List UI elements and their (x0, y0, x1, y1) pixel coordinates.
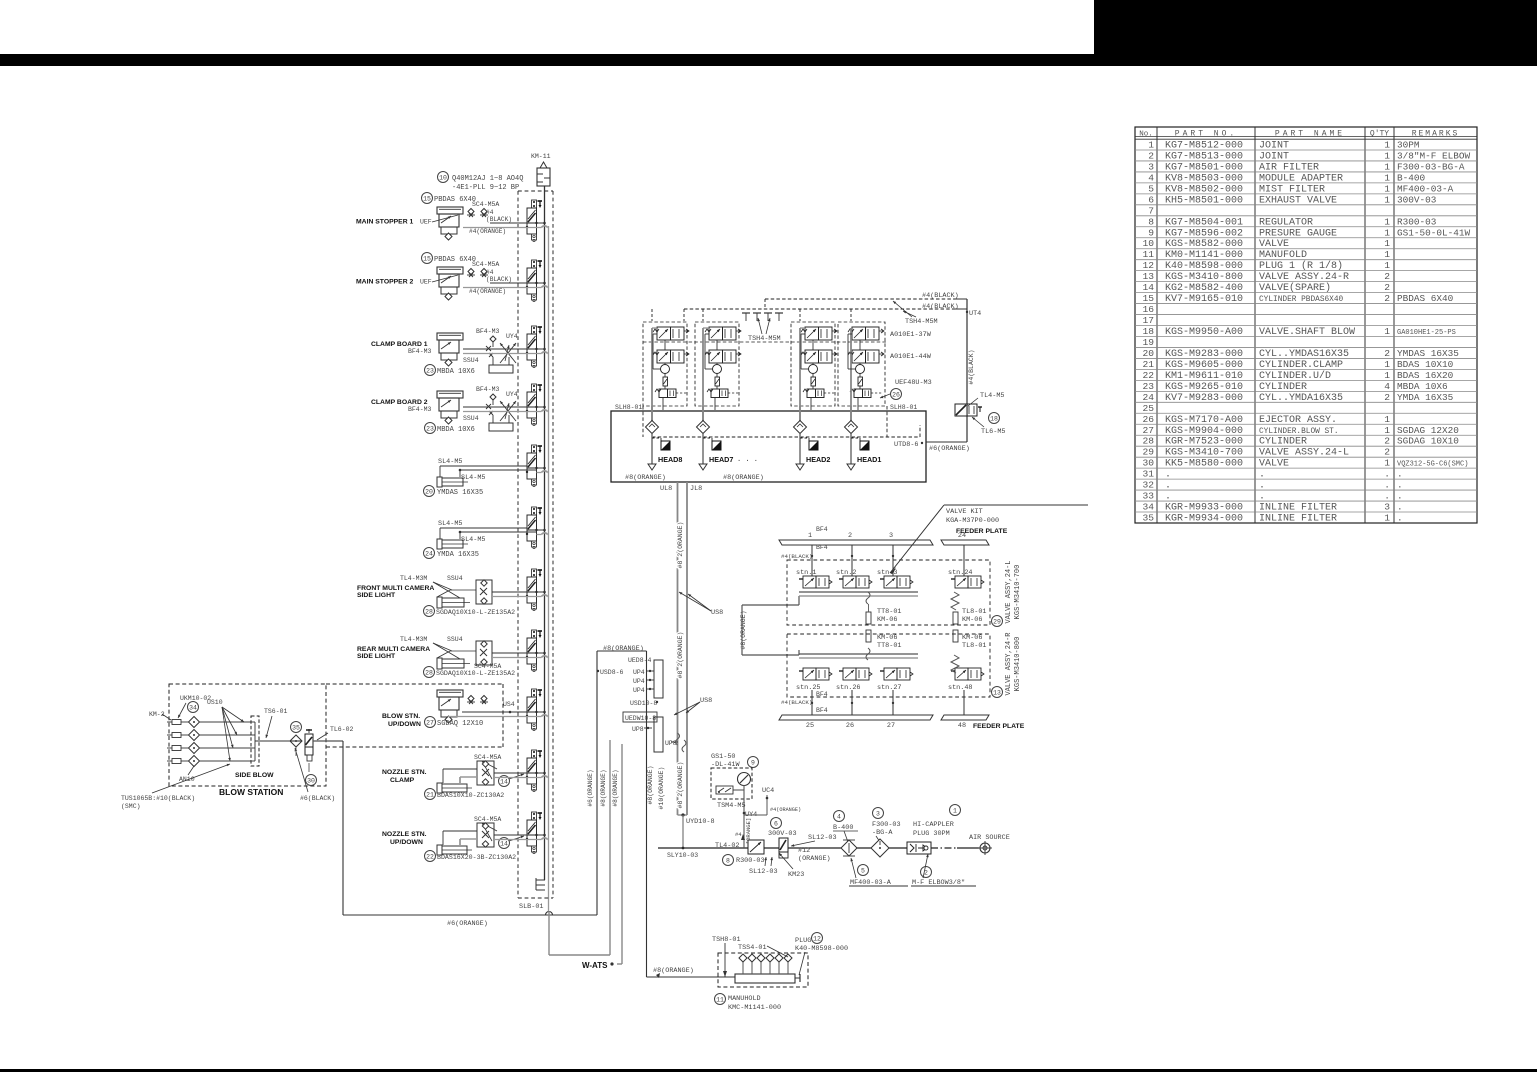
svg-text:TT8-01: TT8-01 (877, 608, 901, 616)
label circled 14 spare valve station 10 (499, 774, 525, 787)
node UP8 left (632, 726, 652, 733)
ejector head 2 (713, 365, 722, 374)
label BF4-M3 / UY4 station 3 (408, 328, 518, 364)
cylinder station 11 (437, 845, 472, 855)
svg-text:UP/DOWN: UP/DOWN (388, 721, 421, 728)
label circled 27 SGDAQ 12X10 station 9 (425, 717, 484, 729)
svg-text:22: 22 (426, 853, 434, 860)
svg-text:#4(BLACK): #4(BLACK) (922, 292, 959, 300)
svg-text:NOZZLE STN.: NOZZLE STN. (382, 831, 427, 838)
svg-text:KM-11: KM-11 (531, 153, 551, 160)
svg-text:HEAD1: HEAD1 (857, 455, 881, 464)
valve UEF48U-M3 head 2 (707, 389, 739, 398)
valve A010E1-44W head 2 (705, 350, 741, 363)
wire station 4 to valve (463, 407, 537, 412)
wire output bus valve assy VALVE ASSY,24-R (799, 654, 918, 658)
wire #6(ORANGE) to heads box (926, 442, 970, 453)
svg-text:US4: US4 (503, 701, 515, 708)
wire #6(ORANGE) bottom run (343, 912, 597, 928)
label MF400-03-A circled 5 (849, 858, 908, 887)
svg-text:SGDAQ 12X10: SGDAQ 12X10 (437, 720, 483, 728)
valve A010E1-37W head 3 (801, 327, 837, 340)
head module 4 dashed box (838, 322, 885, 406)
label PLUG circled 12 (795, 933, 848, 976)
filter capsule head 4 (858, 377, 863, 386)
svg-text:REAR MULTI CAMERA: REAR MULTI CAMERA (357, 646, 430, 653)
svg-text:TL4-M3M: TL4-M3M (400, 575, 427, 582)
label circled 22 BDAS16X20-3B-ZC130A2 station 11 (425, 851, 517, 862)
valve UEF48U-M3 head 4 (850, 389, 882, 398)
svg-text:.: . (1165, 470, 1171, 481)
label A010E1-37W (890, 331, 932, 339)
label HEAD7 (709, 455, 733, 464)
valve assy 24-L dashed box (787, 560, 990, 625)
svg-text:20: 20 (1142, 348, 1154, 359)
svg-text:26: 26 (846, 722, 854, 730)
valve shaft blow circled 18 (KGS-M9950) (955, 392, 1005, 436)
label station 2 name (356, 275, 458, 286)
svg-text:#8(ORANGE): #8(ORANGE) (612, 769, 619, 806)
svg-text:B-400: B-400 (1397, 172, 1426, 183)
svg-text:2: 2 (1384, 392, 1390, 403)
footer rule (0, 1069, 1537, 1072)
svg-text:KH5-M8501-000: KH5-M8501-000 (1165, 195, 1243, 206)
label station 1 name (356, 215, 458, 226)
wire #8(ORANGE) link to valve assy (740, 596, 799, 655)
svg-text:KV7-M9165-010: KV7-M9165-010 (1165, 294, 1243, 305)
svg-text:US8: US8 (711, 609, 723, 617)
svg-text:F300-03: F300-03 (872, 821, 901, 829)
svg-text:HEAD7: HEAD7 (709, 455, 733, 464)
svg-text:28: 28 (425, 608, 433, 615)
svg-text:#4: #4 (486, 209, 494, 216)
label station 8 name (357, 646, 430, 660)
wire station 11 cylinder link (443, 831, 477, 845)
svg-text:20: 20 (425, 488, 433, 495)
svg-text:CYLINDER.U/D: CYLINDER.U/D (1259, 370, 1331, 382)
svg-text:9: 9 (1148, 227, 1154, 238)
svg-text:KK5-M8580-000: KK5-M8580-000 (1165, 459, 1243, 470)
svg-text:UEF48U-M3: UEF48U-M3 (895, 379, 932, 387)
svg-text:26: 26 (892, 391, 900, 398)
svg-text:SL12-03: SL12-03 (749, 868, 778, 876)
svg-text:TUS1065B:#10(BLACK): TUS1065B:#10(BLACK) (121, 795, 195, 802)
valve cluster station 3 (486, 336, 516, 373)
svg-text:PART NAME: PART NAME (1275, 130, 1345, 139)
svg-text:.: . (1259, 470, 1265, 481)
svg-text:15: 15 (1142, 293, 1154, 304)
valve UEF48U-M3 head 1 (655, 389, 687, 398)
label #6(ORANGE) vertical riser tag (587, 769, 594, 806)
label circled 23 MBDA 10X6 station 4 (425, 423, 475, 435)
svg-text:CLAMP BOARD 1: CLAMP BOARD 1 (371, 341, 428, 348)
svg-text:#4(BLACK): #4(BLACK) (968, 349, 975, 384)
svg-text:REMARKS: REMARKS (1412, 130, 1460, 139)
cylinder station 6 (437, 539, 468, 549)
svg-text:#10(ORANGE): #10(ORANGE) (658, 767, 665, 810)
svg-text:SSU4: SSU4 (463, 415, 479, 422)
pilot dashed tie across head modules (643, 341, 887, 343)
label KM-2 (149, 711, 171, 720)
svg-text:1: 1 (1384, 150, 1390, 161)
valve stn.2 (836, 569, 872, 588)
svg-text:1: 1 (1384, 414, 1390, 425)
svg-text:UED8-4: UED8-4 (628, 657, 652, 664)
svg-text:TSH4-M5M: TSH4-M5M (748, 335, 781, 343)
label station 7 name (357, 585, 434, 599)
svg-text:BF4-M3: BF4-M3 (476, 386, 500, 393)
fitting TT8-01 KM-06 VALVE ASSY,24-R (866, 630, 901, 660)
svg-text:#8(ORANGE): #8(ORANGE) (723, 474, 764, 482)
svg-text:KGS-M3410-800: KGS-M3410-800 (1014, 637, 1022, 692)
svg-text:AIR FILTER: AIR FILTER (1259, 162, 1319, 173)
cylinder station 7 (437, 590, 476, 608)
label circled 28 SGDAQ10X10-L-ZE135A2 station 7 (424, 606, 516, 617)
label #8(ORANGE) vert left (647, 765, 654, 804)
svg-text:24: 24 (1142, 392, 1154, 403)
svg-text:15: 15 (423, 255, 431, 262)
svg-text:SL12-03: SL12-03 (808, 834, 837, 842)
svg-text:MAIN STOPPER 2: MAIN STOPPER 2 (356, 279, 414, 286)
label UKM10-02 circled 34 (178, 695, 211, 718)
svg-text:MBDA 10X6: MBDA 10X6 (1397, 381, 1448, 392)
svg-text:1: 1 (808, 532, 812, 540)
svg-text:KGR-M9933-000: KGR-M9933-000 (1165, 503, 1243, 514)
svg-text:VALVE ASSY.24-L: VALVE ASSY.24-L (1259, 448, 1349, 459)
label W-ATS (582, 961, 614, 970)
valve stn.3 (877, 569, 913, 588)
fitting TSH4-M5M cluster (742, 313, 783, 343)
svg-text:2: 2 (848, 532, 852, 540)
svg-text:1: 1 (1384, 458, 1390, 469)
label SL12-03 + KM23 (749, 853, 804, 879)
label circled 28 SGDAQ10X10-L-ZE135A2 station 8 (424, 667, 516, 678)
label circled 15 PBDAS 6X40 station 2 (422, 253, 500, 269)
svg-text:12: 12 (813, 935, 821, 942)
svg-text:SSU4: SSU4 (463, 357, 479, 364)
svg-text:TSS4-01: TSS4-01 (738, 944, 767, 952)
valve UEF48U-M3 head 3 (803, 389, 835, 398)
ejector head 3 (809, 365, 818, 374)
label circled 23 MBDA 10X6 station 3 (425, 365, 475, 377)
label HEAD2 (806, 455, 830, 464)
svg-text:2: 2 (1148, 150, 1154, 161)
svg-text:SC4-M5A: SC4-M5A (474, 816, 501, 823)
svg-text:FEEDER PLATE: FEEDER PLATE (956, 528, 1008, 535)
svg-text:SGDAG 10X10: SGDAG 10X10 (1397, 436, 1459, 447)
label #8 2(ORANGE) upper (677, 522, 684, 569)
valve station 2 (manifold solenoid valve) (526, 260, 542, 302)
svg-text:16: 16 (1142, 304, 1154, 315)
svg-text:1: 1 (1384, 359, 1390, 370)
filter square head 4 (851, 434, 869, 465)
manifold block UED8-4 (597, 657, 663, 698)
svg-text:.: . (1384, 480, 1390, 491)
svg-text:UY4: UY4 (506, 391, 518, 398)
svg-text:1: 1 (1384, 370, 1390, 381)
svg-text:UEF: UEF (420, 219, 432, 226)
fitting SC4-M5A pair station 1 (467, 209, 488, 218)
exhaust valve 300V-03 circled 6 (768, 818, 797, 859)
svg-text:MBDA 10X6: MBDA 10X6 (437, 368, 475, 376)
drain triangle head 1 (648, 464, 656, 470)
svg-text:MBDA 10X6: MBDA 10X6 (437, 426, 475, 434)
svg-text:REGULATOR: REGULATOR (1259, 217, 1313, 228)
ejector head 4 (856, 365, 865, 374)
svg-text:.: . (1384, 469, 1390, 480)
svg-text:KV8-M8502-000: KV8-M8502-000 (1165, 184, 1243, 195)
wire station 8 to valve (492, 653, 537, 658)
head module 3 dashed box (791, 322, 835, 406)
label circled 14 spare valve station 11 (499, 836, 525, 849)
wire station 9 to valve (448, 712, 537, 717)
svg-text:1: 1 (1384, 238, 1390, 249)
wire UT4 riser #4(BLACK) (955, 299, 975, 442)
label TSH4-M5M right (893, 301, 938, 326)
label vertical VALVE ASSY,24-L (1005, 560, 1022, 623)
label station 10 name (382, 769, 427, 784)
svg-text:19: 19 (1142, 337, 1154, 348)
label #4(ORANGE) vertical riser (735, 818, 752, 844)
svg-text:HEAD8: HEAD8 (658, 455, 682, 464)
svg-text:#4(BLACK): #4(BLACK) (922, 303, 959, 311)
squiggle breaks on UL8/JL8 (676, 733, 687, 752)
valve stn.1 (796, 569, 832, 588)
svg-text:27: 27 (426, 719, 434, 726)
svg-text:TL4-02: TL4-02 (715, 842, 739, 850)
label HEAD1 (857, 455, 881, 464)
svg-text:PBDAS 6X40: PBDAS 6X40 (434, 196, 476, 204)
svg-text:MANUFOLD: MANUFOLD (1259, 250, 1307, 261)
svg-text:.: . (1397, 480, 1403, 491)
svg-text:34: 34 (1142, 502, 1154, 513)
cylinder station 4 (437, 391, 463, 424)
svg-text:UP4: UP4 (633, 687, 645, 694)
manifold block UEDW10-8 (623, 712, 663, 752)
filter capsule head 3 (811, 377, 816, 386)
svg-text:11: 11 (716, 996, 724, 1003)
label SL12-03 second (791, 834, 837, 847)
label station 4 name (371, 399, 428, 406)
label station 11 name (382, 831, 427, 846)
wire stems 24-R to feeder bottom (811, 690, 964, 715)
svg-text:VALVE ASSY,24-L: VALVE ASSY,24-L (1005, 560, 1013, 623)
wire station 7 to valve (492, 592, 537, 597)
svg-text:1: 1 (953, 807, 957, 814)
inline filter diamond head 4 (845, 406, 858, 434)
svg-text:CYLINDER: CYLINDER (1259, 437, 1307, 448)
svg-text:K40-M8598-000: K40-M8598-000 (795, 945, 848, 953)
label BF4 bottom stem (781, 691, 828, 714)
wire head 2 internal (703, 328, 717, 427)
cylinder station 2 (437, 267, 463, 300)
svg-text:SLH8-01: SLH8-01 (615, 404, 642, 411)
label SLH8-01 left (615, 404, 642, 411)
svg-text:1: 1 (1384, 249, 1390, 260)
label SC4-M5A station 10 (474, 754, 501, 779)
svg-text:TSM4-M5: TSM4-M5 (717, 802, 746, 810)
label circled 15 PBDAS 6X40 station 1 (422, 193, 500, 209)
wire W-ATS riser x622 (617, 744, 622, 964)
valve station 10 (manifold solenoid valve) (526, 750, 542, 792)
valve stn.26 (836, 668, 872, 692)
wire TL6-02 to riser (313, 741, 343, 915)
svg-text:#8 2(ORANGE): #8 2(ORANGE) (677, 762, 684, 809)
svg-text:2: 2 (1384, 293, 1390, 304)
svg-text:29: 29 (1142, 447, 1154, 458)
svg-text:1: 1 (1384, 161, 1390, 172)
wire UL8 vertical run (660, 482, 678, 815)
wire station 11 pipes to bus (537, 834, 549, 840)
label MANUHOLD circled 11 (715, 994, 782, 1013)
svg-text:33: 33 (1142, 491, 1154, 502)
inline filter diamond head 1 (646, 406, 659, 434)
svg-text:FRONT MULTI CAMERA: FRONT MULTI CAMERA (357, 585, 434, 592)
svg-text:SIDE LIGHT: SIDE LIGHT (357, 653, 396, 660)
label #8(ORANGE) manifold top (603, 645, 644, 653)
label #8(ORANGE) manifold feed (653, 967, 694, 978)
svg-text:3: 3 (876, 810, 880, 817)
pilot dashed line B #4(BLACK) (684, 303, 959, 311)
wire station 4 pipes to bus (537, 406, 549, 412)
svg-text:TL6-02: TL6-02 (330, 726, 354, 733)
svg-text:.: . (1397, 513, 1403, 524)
label BLOW STATION (219, 787, 283, 797)
svg-text:.: . (1384, 491, 1390, 502)
svg-text:30: 30 (1142, 458, 1154, 469)
svg-text:SGDAQ10X10-L-ZE135A2: SGDAQ10X10-L-ZE135A2 (436, 670, 515, 677)
svg-text:UP/DOWN: UP/DOWN (390, 839, 423, 846)
cylinder station 5 (437, 477, 468, 487)
label SC4-M5A station 9 (474, 663, 501, 670)
label #10(ORANGE) vert (658, 767, 665, 810)
svg-text:1: 1 (1384, 172, 1390, 183)
valve A010E1-37W head 1 (653, 327, 689, 340)
svg-text:12: 12 (1142, 260, 1154, 271)
label UY4 (743, 811, 758, 819)
svg-text:SGDAQ10X10-L-ZE135A2: SGDAQ10X10-L-ZE135A2 (436, 609, 515, 616)
node UP8 right (665, 740, 678, 747)
valve stn.25 (796, 668, 832, 692)
svg-text:UT4: UT4 (969, 310, 981, 318)
svg-text:#6(ORANGE): #6(ORANGE) (447, 920, 488, 928)
svg-text:#8(ORANGE): #8(ORANGE) (647, 765, 654, 804)
svg-text:KM1-M9611-010: KM1-M9611-010 (1165, 371, 1243, 382)
svg-text:YMDAS 16X35: YMDAS 16X35 (1397, 348, 1459, 359)
svg-text:UY4: UY4 (506, 333, 518, 340)
svg-text:10: 10 (1142, 238, 1154, 249)
svg-text:JL8: JL8 (690, 485, 702, 493)
valve station 3 (manifold solenoid valve) (526, 326, 542, 368)
svg-text:stn.48: stn.48 (948, 684, 972, 692)
svg-text:SL4-M5: SL4-M5 (438, 520, 462, 528)
feeder plate bottom bars (779, 715, 989, 730)
svg-text:SC4-M5A: SC4-M5A (472, 201, 499, 208)
coupler HI-CAPPLER circled 1 (907, 805, 961, 855)
svg-text:#8(ORANGE): #8(ORANGE) (600, 769, 607, 806)
svg-text:.: . (1397, 469, 1403, 480)
valve station 5 (manifold solenoid valve) (526, 445, 542, 487)
manifold bar with ports (735, 954, 800, 983)
svg-text:YMDAS 16X35: YMDAS 16X35 (437, 489, 483, 497)
air filter F300-03-BG-A circled 3 (871, 808, 901, 858)
filter circled 35 on blow line (290, 722, 302, 748)
svg-text:A010E1-37W: A010E1-37W (890, 331, 932, 339)
svg-text:29: 29 (993, 618, 1001, 625)
pilot stubs to head modules (652, 299, 851, 321)
wire station 1 pipes to bus (537, 222, 549, 228)
svg-text:PLUG: PLUG (795, 937, 811, 945)
label pipes station 2 (469, 269, 512, 295)
svg-text:KMC-M1141-000: KMC-M1141-000 (728, 1004, 781, 1012)
svg-text:#4(BLACK): #4(BLACK) (781, 553, 812, 560)
filter capsule head 1 (663, 377, 668, 386)
parts table (1135, 127, 1477, 525)
svg-text:SIDE BLOW: SIDE BLOW (235, 772, 274, 779)
module adapter B-400 circled 4 (833, 811, 858, 857)
svg-text:A010E1-44W: A010E1-44W (890, 353, 932, 361)
fitting TL8-01 KM-06 VALVE ASSY,24-L (951, 592, 986, 624)
svg-text:34: 34 (189, 704, 197, 711)
heads outlet box (solid) (611, 411, 926, 482)
valve station 11 (manifold solenoid valve) (526, 812, 542, 854)
svg-text:EJECTOR ASSY.: EJECTOR ASSY. (1259, 415, 1337, 426)
svg-text:HI-CAPPLER: HI-CAPPLER (913, 821, 954, 829)
svg-text:#4(ORANGE): #4(ORANGE) (469, 288, 506, 295)
svg-text:SIDE LIGHT: SIDE LIGHT (357, 592, 396, 599)
valve station 7 (manifold solenoid valve) (526, 569, 542, 611)
svg-text:2: 2 (1384, 436, 1390, 447)
label #8(ORANGE) vertical riser tag A (600, 769, 607, 806)
svg-text:3: 3 (889, 532, 893, 540)
svg-text:KM23: KM23 (788, 871, 804, 879)
svg-text:US8: US8 (700, 697, 712, 705)
svg-text:#8(ORANGE): #8(ORANGE) (625, 474, 666, 482)
svg-text:27: 27 (887, 722, 895, 730)
svg-text:24: 24 (425, 550, 433, 557)
svg-text:KGA-M37P0-000: KGA-M37P0-000 (946, 517, 999, 525)
svg-text:SSU4: SSU4 (447, 636, 463, 643)
label #6(BLACK) (295, 747, 336, 802)
svg-text:KG7-M8596-002: KG7-M8596-002 (1165, 228, 1243, 239)
svg-text:#4: #4 (486, 269, 494, 276)
valve block station 10 (477, 761, 494, 785)
svg-text:TSH8-01: TSH8-01 (712, 936, 741, 944)
svg-text:UYD10-8: UYD10-8 (686, 818, 715, 826)
node SLB-01 bus end (518, 878, 553, 911)
svg-text:27: 27 (1142, 425, 1154, 436)
svg-text:GS1-50-0L-41W: GS1-50-0L-41W (1397, 227, 1471, 238)
valve station 9 (manifold solenoid valve) (526, 689, 542, 731)
svg-text:UEDW10-8: UEDW10-8 (625, 715, 656, 722)
label UT4 (966, 310, 981, 318)
valve block station 8 (476, 641, 492, 665)
svg-text:CYL..YMDA16X35: CYL..YMDA16X35 (1259, 393, 1343, 404)
svg-text:#6(BLACK): #6(BLACK) (300, 795, 335, 802)
wire station 5 pipes to bus (537, 467, 549, 473)
header black block (top right) (1094, 0, 1537, 54)
svg-text:PLUG 1 (R 1/8): PLUG 1 (R 1/8) (1259, 260, 1343, 272)
pressure gauge GS1-50 circled 9 (711, 753, 759, 848)
svg-text:GA010HE1-25-PS: GA010HE1-25-PS (1397, 329, 1456, 337)
label HEAD7 dots (737, 456, 758, 464)
svg-text:25: 25 (1142, 403, 1154, 414)
label circled 21 BDAS10X10-ZC130A2 station 10 (425, 789, 505, 800)
svg-text:25: 25 (806, 722, 814, 730)
node USD10-8 (630, 700, 658, 707)
svg-text:CLAMP: CLAMP (390, 777, 415, 784)
valve A010E1-37W head 2 (705, 327, 741, 340)
